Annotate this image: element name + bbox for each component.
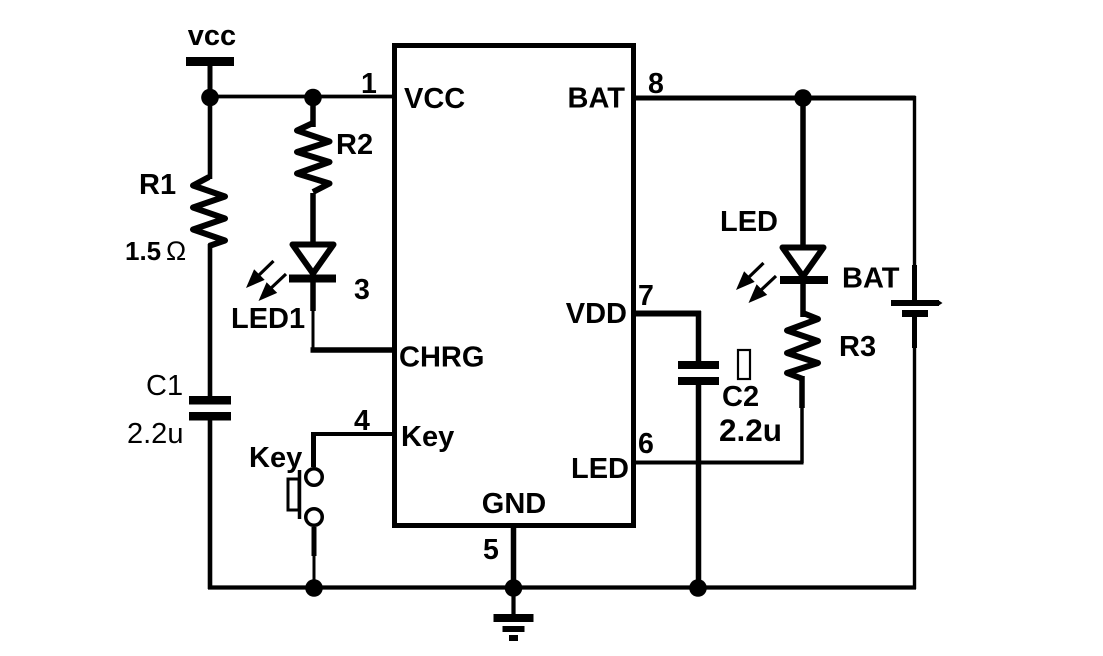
- wire battery bottom: [912, 317, 917, 589]
- capacitor C2: [678, 361, 719, 385]
- wire R1 to C1: [208, 244, 213, 397]
- svg-text:1.5: 1.5: [125, 236, 161, 266]
- svg-text:2.2u: 2.2u: [719, 412, 782, 448]
- svg-text:7: 7: [638, 280, 654, 312]
- junction node B: [304, 89, 322, 107]
- svg-text:BAT: BAT: [842, 263, 900, 295]
- junction node switch/ground rail: [305, 579, 323, 597]
- svg-text:BAT: BAT: [568, 83, 626, 115]
- svg-text:3: 3: [354, 274, 370, 306]
- svg-text:6: 6: [638, 428, 654, 460]
- junction node GND pin/rail: [505, 579, 523, 597]
- wire R2 to LED1: [310, 193, 316, 244]
- label 1.5 ohm: [125, 236, 186, 266]
- battery BT1: [891, 300, 943, 317]
- LED LED1: [289, 245, 336, 283]
- svg-text:C2: C2: [722, 381, 759, 413]
- wire C2 to ground rail: [696, 384, 702, 589]
- svg-text:CHRG: CHRG: [399, 342, 484, 374]
- svg-text:Ω: Ω: [166, 236, 186, 266]
- svg-text:Key: Key: [401, 421, 454, 453]
- svg-text:vcc: vcc: [188, 20, 236, 52]
- resistor R1: [193, 177, 225, 246]
- resistor R3: [787, 313, 818, 379]
- svg-text:VCC: VCC: [404, 83, 465, 115]
- svg-text:C1: C1: [146, 370, 183, 402]
- wire battery top: [913, 96, 916, 301]
- junction node A: [201, 89, 219, 107]
- wire Key pin to switch: [314, 432, 396, 467]
- svg-text:LED: LED: [571, 453, 629, 485]
- IC U1 body: [395, 46, 634, 526]
- svg-text:Key: Key: [249, 442, 302, 474]
- svg-text:LED1: LED1: [231, 303, 305, 335]
- svg-text:1: 1: [361, 68, 377, 100]
- wire LED1 to CHRG pin: [311, 282, 396, 350]
- LED1 emission arrows: [246, 261, 286, 301]
- junction node C2/ground rail: [689, 579, 707, 597]
- wire GND pin (pin 5): [511, 526, 517, 588]
- svg-text:LED: LED: [720, 206, 778, 238]
- wire VCC rail (node A to IC pin 1): [208, 95, 396, 99]
- power symbol VCC: [186, 57, 234, 98]
- wire R3 to LED pin wire: [799, 376, 805, 463]
- svg-text:VDD: VDD: [566, 298, 627, 330]
- LED D2 emission arrows: [736, 263, 776, 303]
- svg-text:8: 8: [648, 68, 664, 100]
- pushbutton Key: [288, 469, 322, 526]
- wire C1 to ground rail: [208, 420, 213, 589]
- svg-text:4: 4: [354, 405, 370, 437]
- wire BAT rail (pin 8): [633, 96, 916, 101]
- wire LED to R3: [800, 283, 806, 317]
- svg-text:R1: R1: [139, 169, 176, 201]
- svg-text:GND: GND: [482, 488, 546, 520]
- junction node C (BAT rail / LED): [794, 89, 812, 107]
- capacitor C1: [189, 396, 231, 421]
- svg-text:R3: R3: [839, 331, 876, 363]
- ground: [494, 588, 534, 641]
- wire node C to LED: [800, 98, 806, 248]
- resistor R2: [297, 123, 330, 192]
- box glyph: [738, 350, 750, 379]
- wire LED pin (pin 6): [633, 461, 804, 465]
- wire node B to R2: [310, 97, 316, 127]
- wire VDD pin to C2: [633, 311, 701, 363]
- LED D2: [780, 248, 828, 285]
- svg-text:2.2u: 2.2u: [127, 418, 183, 450]
- wire ground rail: [208, 585, 916, 589]
- wire switch to ground rail: [312, 527, 317, 588]
- svg-text:5: 5: [483, 534, 499, 566]
- wire node A to R1: [208, 97, 213, 179]
- svg-text:R2: R2: [336, 129, 373, 161]
